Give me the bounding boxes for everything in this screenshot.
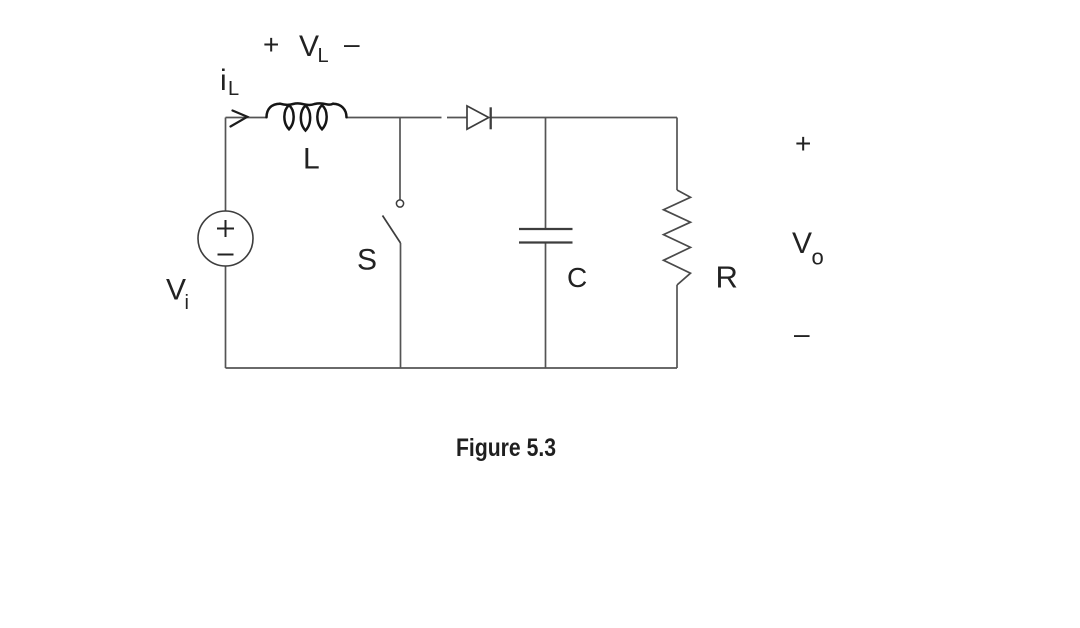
wire: inductor to diode (with small break) (347, 117, 468, 119)
svg-text:+: + (795, 128, 811, 159)
diode triangle (467, 106, 489, 129)
wire: bottom rail (226, 367, 678, 369)
current arrow iL (231, 111, 248, 127)
svg-text:–: – (344, 28, 360, 59)
wire: right branch lower (676, 285, 678, 368)
switch S pole circle (396, 200, 403, 207)
svg-text:L: L (318, 45, 329, 67)
wire: left branch lower (source bottom lead) (225, 266, 227, 368)
source V_i circle (198, 211, 253, 266)
svg-text:C: C (567, 262, 587, 293)
resistor R zigzag (664, 190, 691, 285)
svg-text:V: V (299, 30, 319, 63)
capacitor plates (519, 229, 573, 243)
svg-text:Figure 5.3: Figure 5.3 (456, 434, 556, 462)
source minus sign (218, 254, 234, 256)
svg-text:–: – (794, 318, 810, 349)
wire: diode to top-right corner (491, 117, 678, 119)
wire: switch branch lower (400, 243, 402, 368)
svg-text:i: i (185, 292, 189, 314)
wire: capacitor top lead (545, 118, 547, 230)
wire: capacitor bottom lead (545, 243, 547, 369)
svg-text:L: L (303, 143, 320, 176)
diode cathode bar (490, 107, 492, 129)
switch S blade (383, 216, 401, 244)
svg-text:+: + (263, 29, 279, 60)
svg-text:V: V (166, 274, 186, 307)
wire: switch branch upper (399, 118, 401, 200)
svg-text:R: R (716, 260, 738, 295)
wire: left branch upper (source top lead) (225, 118, 227, 212)
wire: top left segment from source to inductor (226, 117, 267, 119)
inductor L coil (267, 103, 347, 130)
wire: right branch upper (676, 118, 678, 191)
svg-text:i: i (220, 64, 227, 97)
svg-text:S: S (357, 244, 377, 277)
svg-text:V: V (792, 227, 812, 260)
svg-text:L: L (228, 78, 239, 100)
source plus sign (217, 220, 234, 237)
svg-text:o: o (812, 245, 824, 270)
